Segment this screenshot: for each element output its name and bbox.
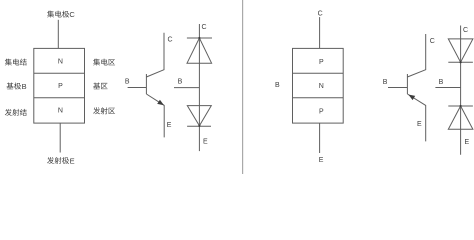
node: NPN structure box (N/P/N regions) [34,48,85,123]
svg-text:E: E [203,139,208,146]
node: PNP structure box (P/N/P regions) [293,48,344,123]
label: 基极B (base B) [7,83,14,90]
arrowhead: Q2 emitter arrow (pointing in, PNP) [408,95,415,101]
wire: Q2 emitter branch [407,94,425,141]
transistor Q1 base bar [145,74,147,94]
svg-text:N: N [58,108,63,115]
wire: emitter lead of PNP structure [319,123,321,153]
transistor Q2 base bar [406,74,408,94]
transistor Q1 (NPN symbol) [128,33,165,138]
junction dot D2 apex [198,125,200,127]
label: 集电极C (collector electrode C) [47,11,54,18]
junction dot D3 apex [460,61,462,63]
wire: PNP collector junction divider [293,72,344,74]
junction dot D4 apex [460,105,462,107]
diode D3 cathode bar (B-C junction) [448,61,473,63]
svg-text:E: E [465,139,470,146]
diode D4 triangle (pointing up to B) [448,106,473,129]
wire: Q2 base lead [388,87,407,89]
diode D2 cathode bar (B-E junction) [187,125,211,127]
label: 基区 (base region) [93,83,100,90]
wire: D3-D4 base lead [435,87,460,89]
svg-text:E: E [167,122,172,129]
svg-text:B: B [125,78,130,85]
transistor Q2 (PNP symbol) [388,34,426,141]
svg-text:E: E [70,156,75,165]
wire: PNP emitter junction divider [293,97,344,99]
svg-text:P: P [319,108,324,115]
svg-text:N: N [319,83,324,90]
wire: emitter lead of NPN structure [59,123,61,152]
svg-text:B: B [22,82,27,91]
svg-text:P: P [319,59,324,66]
diode D1 cathode bar (B-C junction) [187,37,212,39]
wire: Q2 collector branch [407,34,425,77]
svg-text:E: E [319,157,324,164]
label: 发射极E (emitter electrode E) [47,157,54,164]
wire: collector junction divider [34,72,85,74]
svg-text:B: B [383,79,388,86]
svg-text:P: P [58,83,63,90]
svg-text:N: N [58,58,63,65]
svg-text:B: B [178,79,183,86]
wire: collector lead of NPN structure [57,20,59,49]
svg-text:C: C [168,37,173,44]
diode pair D1/D2 (NPN junction model) [174,24,212,151]
diode D3 triangle (pointing down to B) [448,39,473,62]
svg-text:B: B [275,82,280,89]
wire: Q1 emitter branch [146,94,164,137]
diode D4 cathode bar (B-E junction) [448,105,473,107]
label: 发射区 (emitter region) [93,107,100,114]
wire: D3-D4 vertical C-E line [460,26,462,155]
wire: Q1 collector branch [146,33,164,77]
label: 集电区 (collector region) [93,59,100,66]
svg-text:C: C [69,10,75,19]
svg-text:C: C [463,27,468,34]
label: 集电结 (collector junction) [5,59,12,66]
svg-text:C: C [318,11,323,18]
wire: D1-D2 vertical C-E line [198,24,200,151]
wire: D1-D2 base lead [174,87,199,89]
arrowhead: Q1 emitter arrow (pointing out, NPN) [157,100,164,106]
label: 发射结 (emitter junction) [5,109,12,116]
wire: collector lead of PNP structure [319,17,321,48]
junction dot D1 apex [198,37,200,39]
diode D1 triangle (pointing up to C) [187,38,212,63]
wire: Q1 base lead [128,87,147,89]
diode D2 triangle (pointing down to E) [187,106,211,126]
svg-text:B: B [439,79,444,86]
wire: emitter junction divider [34,97,85,99]
divider line between NPN and PNP halves [242,0,244,174]
svg-text:C: C [430,38,435,45]
svg-text:E: E [417,121,422,128]
svg-text:C: C [202,24,207,31]
diode pair D3/D4 (PNP junction model) [435,26,473,155]
